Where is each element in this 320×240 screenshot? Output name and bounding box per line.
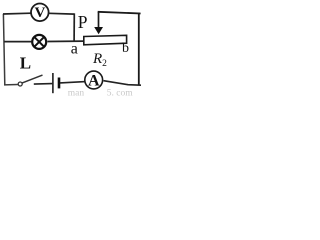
lamp L (circle with X) xyxy=(32,35,46,49)
switch lever (open) xyxy=(22,75,42,83)
svg-text:P: P xyxy=(78,12,88,32)
battery long plate xyxy=(52,73,54,93)
wire: vertical from voltmeter corner down to node a xyxy=(73,13,75,41)
slider P stem xyxy=(98,12,100,28)
wire: lamp row left lead xyxy=(4,41,31,43)
svg-text:b: b xyxy=(122,41,129,56)
battery short plate xyxy=(58,78,61,89)
svg-text:R2: R2 xyxy=(92,51,107,69)
switch pivot xyxy=(18,82,22,86)
svg-text:V: V xyxy=(34,5,45,21)
wire: top right horizontal (slider to right bus) xyxy=(98,12,141,14)
wire: voltmeter right lead to corner xyxy=(49,12,75,15)
wire: switch fixed contact to battery xyxy=(34,83,52,86)
wire: left vertical bus xyxy=(3,14,4,85)
svg-text:man: man xyxy=(68,88,85,98)
wire: bottom left lead xyxy=(4,84,18,86)
voltmeter V xyxy=(31,4,49,22)
svg-text:a: a xyxy=(71,40,78,57)
wire: battery to ammeter xyxy=(60,82,86,83)
wire: ammeter to bottom right corner xyxy=(104,81,142,86)
svg-text:5. com: 5. com xyxy=(107,88,133,98)
wire: voltmeter left lead xyxy=(3,12,31,15)
slider arrowhead xyxy=(94,27,103,34)
wire: right vertical bus xyxy=(138,13,140,86)
rheostat R2 body xyxy=(84,35,127,45)
svg-text:L: L xyxy=(20,54,31,73)
ammeter A xyxy=(85,71,103,89)
wire: node a segment (lamp to rheostat) xyxy=(47,40,84,42)
svg-text:A: A xyxy=(88,72,100,89)
